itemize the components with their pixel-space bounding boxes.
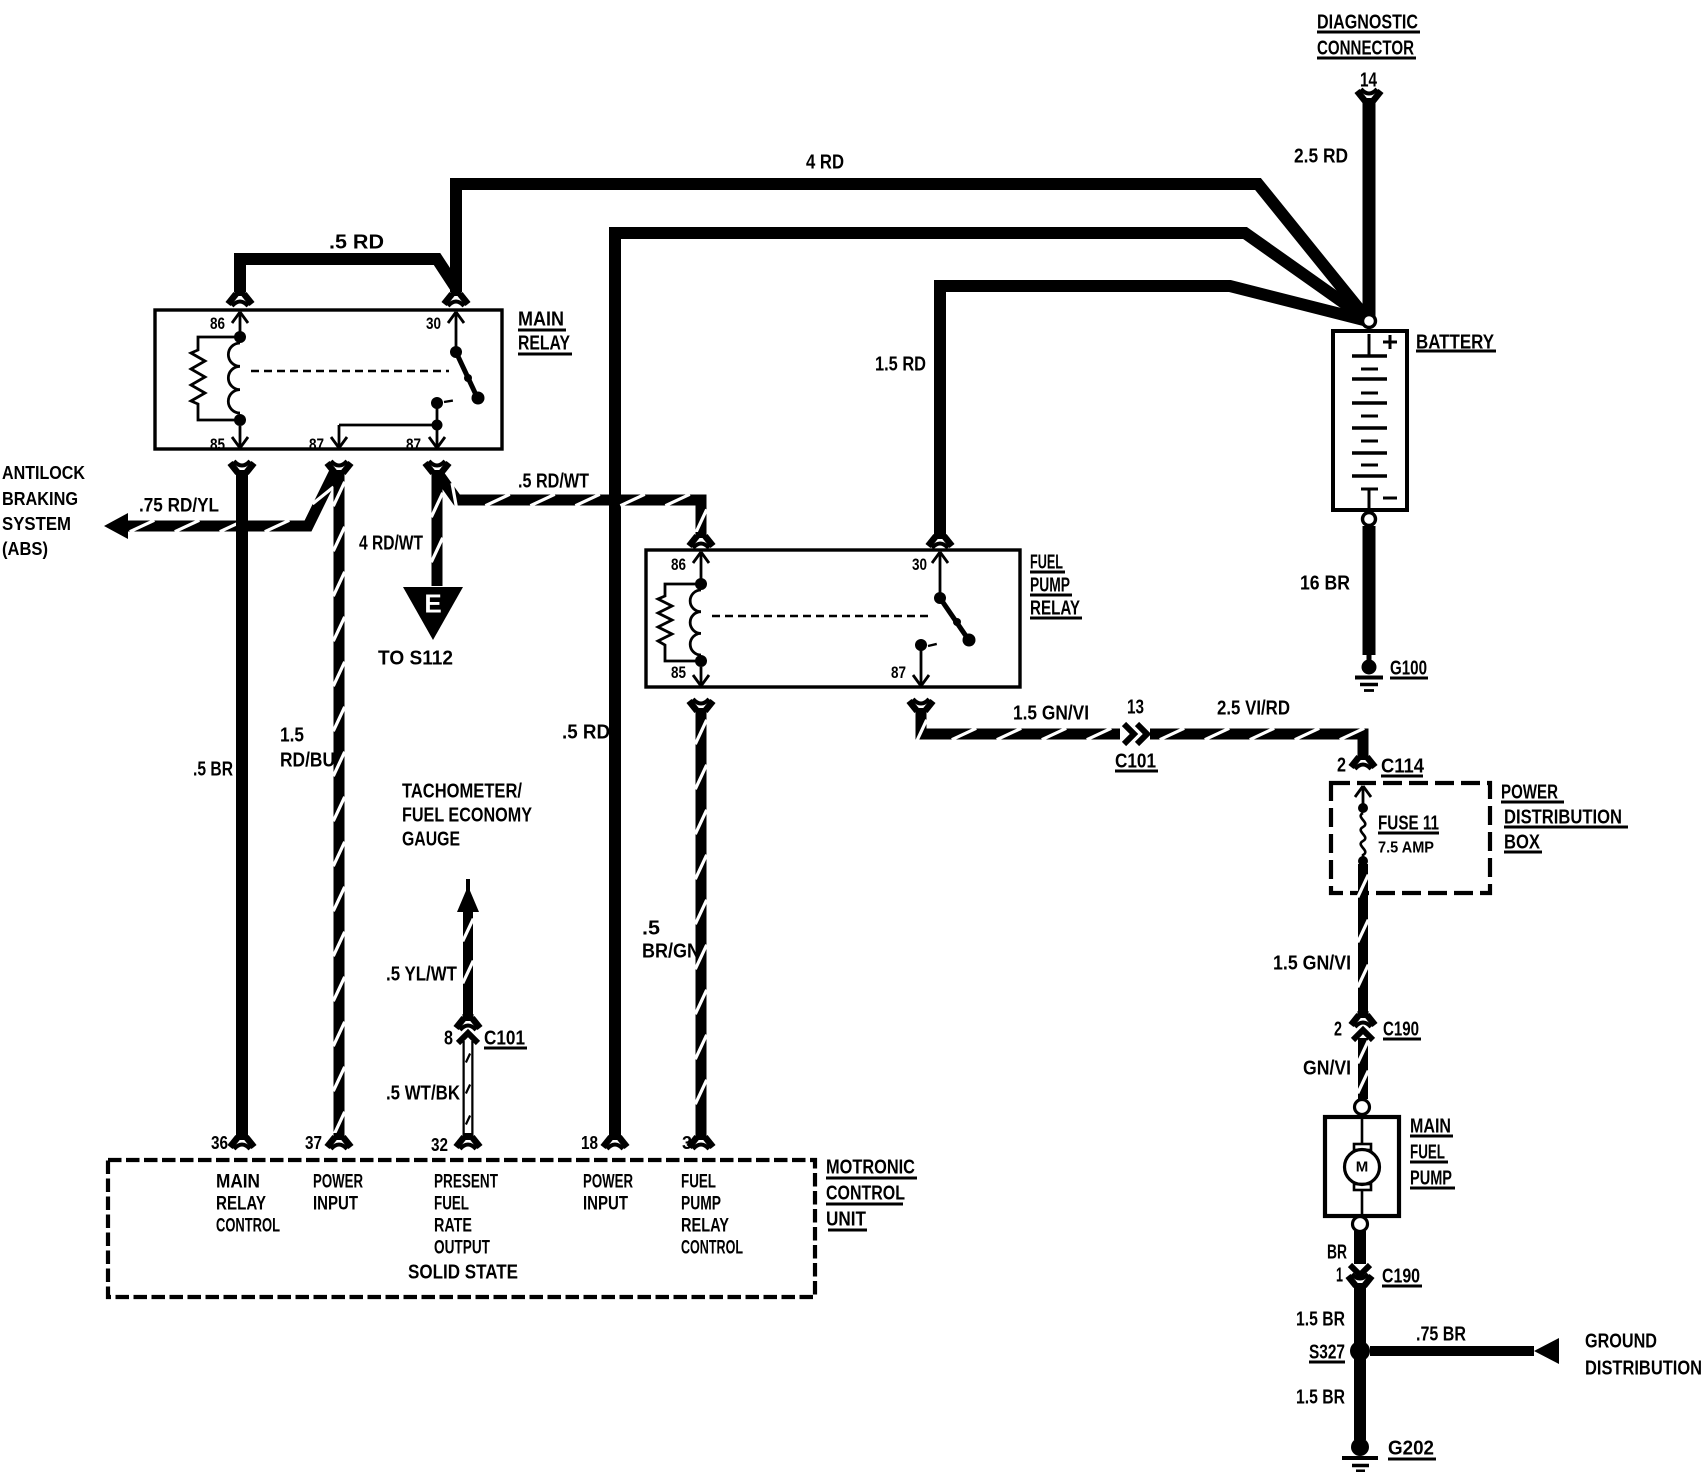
svg-text:DIAGNOSTIC: DIAGNOSTIC	[1317, 11, 1418, 33]
svg-text:SOLID STATE: SOLID STATE	[408, 1261, 518, 1283]
svg-text:13: 13	[1127, 696, 1144, 718]
terminal at fuel pump relay 87	[909, 699, 933, 715]
svg-text:MAIN: MAIN	[1410, 1115, 1451, 1137]
wire 1.5 GN/VI fuel pump relay 87 to C101	[915, 708, 1120, 744]
fuel pump relay pin 85 shaft	[700, 667, 703, 685]
ground distribution label	[1585, 1330, 1702, 1379]
main relay switch blade	[456, 352, 485, 405]
main relay pin 85 shaft	[239, 426, 242, 447]
svg-text:87: 87	[406, 435, 421, 454]
motronic control unit box	[108, 1160, 815, 1297]
diagnostic connector pin 14 label	[1360, 69, 1378, 91]
svg-text:1.5 GN/VI: 1.5 GN/VI	[1013, 702, 1089, 724]
motronic pin 37 label	[305, 1133, 322, 1153]
label .75 RD/YL	[139, 496, 219, 517]
connector C190 pin 2 labels	[1334, 1018, 1421, 1040]
terminal at fuel pump relay 85	[689, 699, 713, 715]
svg-text:POWER: POWER	[313, 1172, 363, 1193]
svg-text:FUEL: FUEL	[434, 1194, 469, 1215]
ground G100 label	[1390, 657, 1428, 679]
label TO S112	[378, 647, 453, 669]
fuel pump relay coil bottom junction	[695, 655, 707, 667]
svg-text:4 RD: 4 RD	[806, 151, 844, 173]
svg-text:37: 37	[305, 1133, 322, 1153]
svg-text:MOTRONIC: MOTRONIC	[826, 1156, 915, 1178]
svg-text:POWER: POWER	[1501, 781, 1558, 803]
fuel pump relay pin 86 label	[671, 555, 686, 574]
wire .5 WT/BK C101 to motronic 32	[466, 1041, 470, 1140]
svg-text:UNIT: UNIT	[826, 1208, 866, 1230]
wire .75 BR S327 to ground distribution	[1370, 1346, 1534, 1356]
label .5 RD	[562, 721, 610, 743]
svg-text:DISTRIBUTION: DISTRIBUTION	[1585, 1357, 1702, 1379]
main relay pin 86 label	[210, 314, 225, 333]
svg-text:RELAY: RELAY	[216, 1194, 266, 1215]
wire .5 RD/WT main relay 87 to fuel pump relay 86	[437, 472, 707, 534]
terminal at motronic pin 37	[327, 1133, 351, 1149]
main relay coil	[228, 343, 240, 413]
wire .75 RD/YL main relay 87 to ABS	[128, 473, 334, 532]
wire 1.5 BR S327 to G202	[1354, 1357, 1366, 1440]
main relay pin 30 label	[426, 314, 441, 333]
diagnostic connector label	[1317, 11, 1420, 59]
svg-text:S327: S327	[1309, 1341, 1345, 1363]
terminal C114	[1351, 753, 1375, 769]
motronic pin 3 function label	[681, 1172, 743, 1259]
svg-text:INPUT: INPUT	[313, 1194, 358, 1215]
svg-text:GAUGE: GAUGE	[402, 828, 460, 850]
wire 2.5 RD diagnostic connector to battery	[1363, 98, 1376, 316]
svg-text:FUEL ECONOMY: FUEL ECONOMY	[402, 804, 533, 826]
label BR	[1327, 1241, 1347, 1263]
svg-text:(ABS): (ABS)	[2, 538, 48, 559]
terminal at main relay 86	[228, 290, 252, 306]
connector C101 pin 13	[1124, 724, 1147, 744]
svg-text:2: 2	[1337, 754, 1346, 776]
wire 2.5 VI/RD C101 to C114	[1150, 728, 1364, 760]
label .5 YL/WT	[386, 963, 457, 985]
diagnostic connector terminal	[1357, 89, 1381, 105]
connector C101 pin 8	[456, 1014, 480, 1043]
wire .5 YL/WT tachometer to C101	[463, 908, 474, 1021]
svg-text:1.5: 1.5	[280, 724, 304, 746]
main relay pin 87a shaft	[338, 425, 341, 447]
motronic control unit label	[826, 1156, 917, 1230]
motronic pin 32 function label	[434, 1172, 498, 1259]
svg-text:18: 18	[581, 1133, 598, 1153]
svg-text:MAIN: MAIN	[518, 308, 564, 330]
fuel pump relay pin 85 arrow	[693, 675, 709, 686]
wire 4 RD main relay 30 to battery +	[456, 184, 1368, 320]
main relay 87 internal bus	[339, 424, 437, 427]
main relay pin 87b arrow	[429, 437, 445, 448]
motronic pin 18 function label	[583, 1172, 633, 1215]
svg-text:.5 BR: .5 BR	[193, 758, 233, 780]
label .5 WT/BK	[386, 1082, 460, 1104]
connector C190 pin 2	[1351, 1011, 1375, 1040]
fuel pump relay actuator dashed link	[712, 615, 932, 618]
wire .5 BR main relay 85 to motronic 36	[236, 470, 248, 1140]
motronic pin 36 label	[211, 1133, 228, 1153]
label .5 BR/GN	[642, 917, 700, 962]
motronic pin 18 label	[581, 1133, 598, 1153]
fuel pump relay pin 87 label	[891, 663, 906, 682]
main relay pin 85 arrow	[232, 437, 248, 448]
main relay pin 30 arrow	[448, 312, 464, 347]
svg-text:MAIN: MAIN	[216, 1172, 260, 1193]
svg-text:RATE: RATE	[434, 1216, 472, 1237]
main relay pin 86 arrow	[232, 312, 248, 333]
connector C101 pin 13 labels	[1115, 696, 1158, 772]
main relay coil bottom junction	[234, 414, 246, 426]
svg-text:CONTROL: CONTROL	[216, 1216, 280, 1237]
main fuel pump motor	[1345, 1119, 1380, 1214]
ground G100	[1355, 655, 1383, 691]
label 2.5 RD	[1294, 145, 1348, 167]
svg-text:1.5 BR: 1.5 BR	[1296, 1308, 1345, 1330]
connector C101 pin 8 labels	[444, 1027, 527, 1049]
svg-text:86: 86	[671, 555, 686, 574]
wire .5 RD main relay 86 to 30	[240, 259, 456, 292]
splice S327 label	[1309, 1341, 1345, 1363]
connector C190 pin 1	[1348, 1265, 1372, 1290]
wire GN/VI C190 to main fuel pump	[1358, 1038, 1369, 1099]
svg-text:BR/GN: BR/GN	[642, 940, 700, 962]
svg-text:30: 30	[426, 314, 441, 333]
main relay pin 87b shaft	[436, 425, 439, 447]
label .5 BR	[193, 758, 233, 780]
svg-text:INPUT: INPUT	[583, 1194, 628, 1215]
svg-text:4 RD/WT: 4 RD/WT	[359, 532, 423, 554]
main relay 87 junction	[432, 403, 443, 431]
label 4 RD/WT	[359, 532, 423, 554]
ground G202 label	[1388, 1437, 1436, 1459]
svg-text:FUSE 11: FUSE 11	[1378, 812, 1439, 834]
svg-text:.5 RD: .5 RD	[562, 721, 610, 743]
svg-text:TACHOMETER/: TACHOMETER/	[402, 780, 522, 802]
svg-text:.5 RD: .5 RD	[329, 231, 384, 253]
svg-text:.5 RD/WT: .5 RD/WT	[518, 470, 589, 492]
svg-text:BR: BR	[1327, 1241, 1347, 1263]
fuse 11 label	[1378, 812, 1439, 856]
label .75 BR	[1416, 1323, 1466, 1345]
svg-text:2: 2	[1334, 1018, 1342, 1040]
svg-text:30: 30	[912, 555, 927, 574]
svg-text:RD/BU: RD/BU	[280, 749, 335, 771]
label 4 RD	[806, 151, 844, 173]
svg-text:PUMP: PUMP	[681, 1194, 721, 1215]
svg-text:1: 1	[1336, 1264, 1343, 1286]
main relay pin 85 label	[210, 435, 225, 454]
label .5 RD/WT	[518, 470, 589, 492]
main relay pin 87a arrow	[331, 437, 347, 448]
label 1.5 RD/BU	[280, 724, 335, 771]
svg-text:.5 WT/BK: .5 WT/BK	[386, 1082, 460, 1104]
fuse 11 pin arrow	[1355, 786, 1371, 806]
svg-text:ANTILOCK: ANTILOCK	[2, 462, 86, 483]
main fuel pump bottom terminal	[1353, 1217, 1368, 1232]
svg-text:85: 85	[671, 663, 686, 682]
motronic pin 36 function label	[216, 1172, 280, 1237]
svg-text:PUMP: PUMP	[1410, 1167, 1452, 1189]
battery label	[1416, 331, 1496, 353]
svg-text:FUEL: FUEL	[681, 1172, 716, 1193]
svg-text:87: 87	[309, 435, 324, 454]
svg-text:C101: C101	[1115, 750, 1156, 772]
svg-text:2.5 VI/RD: 2.5 VI/RD	[1217, 697, 1290, 719]
main fuel pump box	[1325, 1117, 1399, 1216]
fuel pump relay pin 30 label	[912, 555, 927, 574]
fuel pump relay coil top junction	[695, 578, 707, 590]
label .5 RD	[329, 231, 384, 253]
main relay box	[155, 310, 502, 449]
label 2.5 VI/RD	[1217, 697, 1290, 719]
antilock braking system label	[2, 462, 86, 559]
wire .5 BR/GN fuel pump relay 85 to motronic 3	[695, 708, 706, 1140]
fuel pump relay pin 87 arrow	[913, 675, 929, 686]
splice S327	[1350, 1341, 1370, 1361]
svg-text:16 BR: 16 BR	[1300, 572, 1350, 594]
svg-text:C190: C190	[1383, 1018, 1419, 1040]
wire .5 RD battery + to motronic pin 18	[615, 233, 1368, 1140]
motronic solid state label	[408, 1261, 518, 1283]
fuel pump relay switch blade	[940, 598, 976, 647]
fuse 11	[1358, 803, 1368, 866]
ground symbol E to S112	[403, 587, 463, 640]
wire 1.5 RD/BU main relay 87 to motronic 37	[333, 470, 344, 1140]
label 1.5 BR	[1296, 1308, 1345, 1330]
main relay resistor	[191, 337, 240, 420]
svg-text:32: 32	[431, 1135, 448, 1155]
svg-text:RELAY: RELAY	[518, 332, 571, 354]
terminal at main relay 85	[230, 461, 254, 477]
terminal at fuel pump relay 30	[928, 532, 952, 548]
svg-text:.5 YL/WT: .5 YL/WT	[386, 963, 457, 985]
svg-text:DISTRIBUTION: DISTRIBUTION	[1504, 806, 1622, 828]
svg-text:PUMP: PUMP	[1030, 574, 1070, 596]
main fuel pump label	[1410, 1115, 1455, 1189]
svg-text:.75 RD/YL: .75 RD/YL	[139, 496, 219, 517]
terminal at main relay 87a	[327, 461, 351, 477]
svg-text:87: 87	[891, 663, 906, 682]
fuel pump relay box	[646, 550, 1020, 687]
terminal at main relay 87b	[425, 461, 449, 477]
svg-text:RELAY: RELAY	[681, 1216, 729, 1237]
fuel pump relay pin 87 shaft	[920, 645, 923, 685]
svg-text:CONTROL: CONTROL	[826, 1182, 905, 1204]
wire 1.5 RD battery + to fuel pump relay 30	[940, 286, 1368, 539]
svg-text:G202: G202	[1388, 1437, 1434, 1459]
arrow to antilock braking system	[104, 513, 128, 539]
main relay coil top junction	[234, 331, 246, 343]
fuel pump relay switch pivot	[934, 592, 946, 604]
svg-text:1.5 RD: 1.5 RD	[875, 353, 926, 375]
svg-text:C114: C114	[1381, 755, 1425, 777]
svg-text:36: 36	[211, 1133, 228, 1153]
svg-text:FUEL: FUEL	[1410, 1141, 1445, 1163]
motronic pin 37 function label	[313, 1172, 363, 1215]
svg-text:2.5 RD: 2.5 RD	[1294, 145, 1348, 167]
svg-text:85: 85	[210, 435, 225, 454]
svg-text:7.5 AMP: 7.5 AMP	[1378, 840, 1434, 857]
terminal at motronic pin 18	[603, 1133, 627, 1149]
battery + terminal node	[1363, 315, 1376, 328]
battery	[1333, 331, 1407, 510]
power distribution box	[1331, 783, 1490, 893]
label 1.5 BR	[1296, 1386, 1345, 1408]
svg-text:C101: C101	[484, 1027, 525, 1049]
ground G202	[1342, 1438, 1378, 1471]
fuel pump relay resistor	[658, 584, 701, 661]
wire 1.5 BR C190 to S327	[1354, 1283, 1366, 1345]
svg-text:BRAKING: BRAKING	[2, 488, 78, 509]
svg-text:3: 3	[682, 1133, 692, 1153]
wire BR pump to C190	[1354, 1231, 1366, 1264]
svg-text:C190: C190	[1382, 1265, 1420, 1287]
terminal at motronic pin 36	[230, 1133, 254, 1149]
label 1.5 GN/VI	[1013, 702, 1089, 724]
fuel pump relay pin 85 label	[671, 663, 686, 682]
fuel pump relay coil	[690, 590, 701, 655]
svg-text:.75 BR: .75 BR	[1416, 1323, 1466, 1345]
svg-text:RELAY: RELAY	[1030, 597, 1080, 619]
svg-text:1.5 BR: 1.5 BR	[1296, 1386, 1345, 1408]
svg-text:OUTPUT: OUTPUT	[434, 1238, 490, 1259]
label GN/VI	[1303, 1057, 1351, 1079]
motronic pin 3 label	[682, 1133, 692, 1153]
svg-text:8: 8	[444, 1027, 453, 1049]
main relay contact 87 node	[431, 397, 456, 409]
svg-text:FUEL: FUEL	[1030, 551, 1063, 573]
fuel pump relay pin 86 arrow	[693, 552, 709, 580]
svg-text:86: 86	[210, 314, 225, 333]
svg-text:BOX: BOX	[1504, 831, 1541, 853]
main relay pin 87b label	[406, 435, 421, 454]
fuel pump relay label	[1030, 551, 1082, 619]
svg-text:GN/VI: GN/VI	[1303, 1057, 1351, 1079]
motronic pin 32 label	[431, 1135, 448, 1155]
svg-text:POWER: POWER	[583, 1172, 633, 1193]
svg-text:PRESENT: PRESENT	[434, 1172, 498, 1193]
arrow from ground distribution	[1534, 1338, 1559, 1364]
main relay actuator dashed link	[251, 370, 449, 373]
label 1.5 RD	[875, 353, 926, 375]
main relay pin 87a label	[309, 435, 324, 454]
svg-text:1.5 GN/VI: 1.5 GN/VI	[1273, 952, 1351, 974]
fuel pump relay pin 30 arrow	[932, 552, 948, 593]
power distribution box label	[1501, 781, 1628, 853]
arrow to tachometer gauge	[457, 879, 479, 912]
wire 4 RD/WT main relay 87 to S112	[431, 470, 442, 586]
svg-text:CONNECTOR: CONNECTOR	[1317, 37, 1414, 59]
wire 16 BR battery - to G100	[1363, 526, 1376, 655]
main fuel pump top terminal	[1355, 1100, 1370, 1115]
svg-text:TO S112: TO S112	[378, 647, 453, 669]
terminal at fuel pump relay 86	[689, 532, 713, 548]
svg-text:E: E	[424, 589, 441, 619]
terminal at motronic pin 3	[689, 1133, 713, 1149]
svg-text:G100: G100	[1390, 657, 1427, 679]
label 16 BR	[1300, 572, 1350, 594]
wire 1.5 GN/VI fuse to C190	[1358, 864, 1369, 1018]
connector C114 labels	[1337, 754, 1425, 777]
terminal at motronic pin 32	[456, 1133, 480, 1149]
fuel pump relay contact 87 node	[915, 639, 941, 651]
connector C190 pin 1 labels	[1336, 1264, 1422, 1287]
terminal at main relay 30	[444, 290, 468, 306]
main relay label	[518, 308, 572, 354]
svg-text:GROUND: GROUND	[1585, 1330, 1657, 1352]
main relay switch pivot	[450, 346, 462, 358]
label 1.5 GN/VI	[1273, 952, 1351, 974]
svg-text:M: M	[1356, 1159, 1369, 1176]
svg-text:CONTROL: CONTROL	[681, 1238, 743, 1259]
tachometer gauge label	[402, 780, 533, 850]
svg-text:.5: .5	[642, 917, 660, 939]
svg-text:SYSTEM: SYSTEM	[2, 513, 71, 534]
battery - terminal node	[1363, 513, 1376, 526]
